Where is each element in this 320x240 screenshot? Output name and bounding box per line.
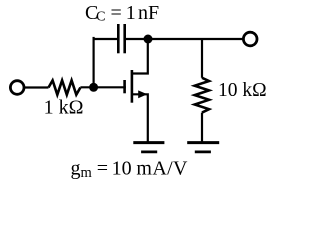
transistor Q1 drain lead <box>133 39 148 74</box>
svg-text:10 kΩ: 10 kΩ <box>218 80 267 101</box>
capacitor CC right plate <box>123 24 126 53</box>
ground under Q1 source: top bar <box>133 141 164 144</box>
wire R1 to gate node A <box>80 86 125 88</box>
input terminal <box>10 81 24 95</box>
resistor R1 <box>49 80 81 94</box>
wire R2 to ground <box>201 113 203 142</box>
wire input to R1 <box>25 86 49 88</box>
transistor Q1 source lead <box>133 94 148 141</box>
wire CC right plate to node B <box>126 38 148 40</box>
wire node B to output terminal <box>148 38 243 40</box>
node A junction <box>89 83 98 92</box>
resistor R2 <box>195 78 209 113</box>
svg-text:CC = 1 nF: CC = 1 nF <box>85 2 159 25</box>
node B junction <box>144 35 153 44</box>
wire node B branch down to R2 <box>201 39 203 78</box>
wire to CC left plate <box>93 38 118 40</box>
svg-text:gm = 10 mA/V: gm = 10 mA/V <box>71 157 189 181</box>
transistor Q1 channel bar <box>131 70 134 103</box>
wire node A up to capacitor <box>92 38 94 88</box>
ground under Q1 source: bottom bar <box>141 150 157 153</box>
ground under R2: top bar <box>187 141 219 144</box>
svg-text:1 kΩ: 1 kΩ <box>44 97 84 119</box>
capacitor CC left plate <box>117 24 120 53</box>
output terminal <box>243 32 257 46</box>
transistor Q1 source arrow <box>138 90 147 98</box>
transistor Q1 gate bar <box>123 80 126 93</box>
ground under R2: bottom bar <box>195 150 211 153</box>
